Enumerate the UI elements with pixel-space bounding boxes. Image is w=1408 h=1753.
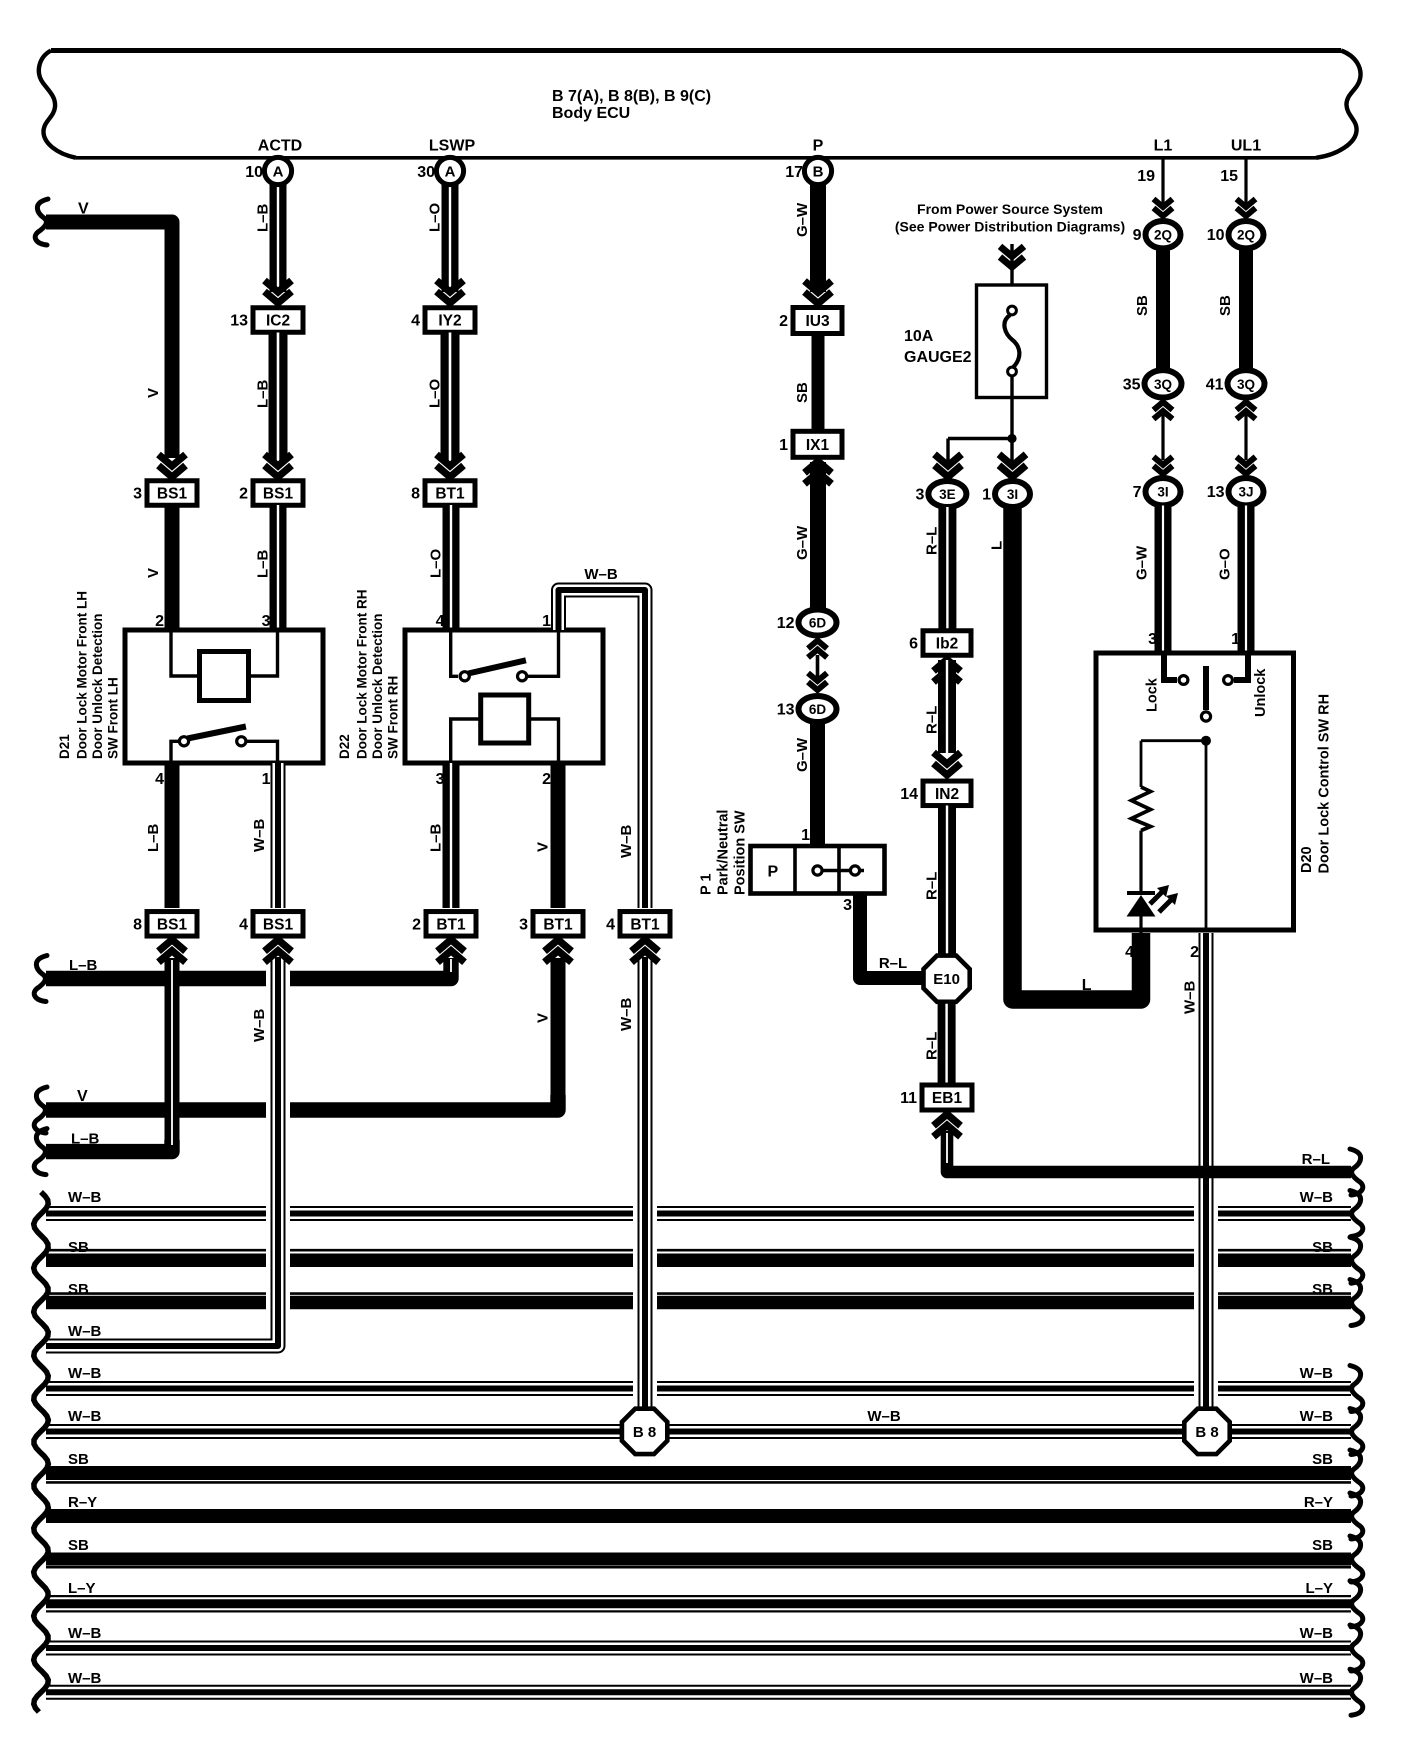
bus label left W–B y1638: [68, 1625, 102, 1642]
bus label left W–B y1202: [68, 1189, 102, 1206]
svg-text:W–B: W–B: [1182, 981, 1199, 1015]
connector IY2 pin 4: [411, 308, 475, 333]
wire G–O from 3J to D20: [1238, 506, 1255, 654]
svg-text:SB: SB: [1312, 1451, 1333, 1468]
wire R-L from E10 to EB1: [938, 1004, 956, 1085]
door lock control switch D20 box: [1096, 653, 1294, 930]
connector IX1 pin 1: [779, 431, 842, 457]
svg-text:From Power Source System: From Power Source System: [917, 201, 1103, 217]
label L-O seg1: [427, 202, 444, 232]
svg-text:Door Unlock Detection: Door Unlock Detection: [90, 613, 105, 759]
svg-text:30: 30: [417, 164, 435, 181]
wire SB bus line 7: [46, 1473, 1351, 1482]
break and label L-B lower 1: [34, 956, 97, 1002]
label R-L seg3: [924, 872, 941, 900]
svg-text:G–O: G–O: [1217, 548, 1234, 580]
wire W-B from BT1 pin 4 to junction B 8 left: [633, 957, 657, 1412]
wire G-W from ECU P to IU3: [810, 184, 826, 292]
bus right break line12: [1350, 1669, 1363, 1715]
D21 switch lever: [188, 727, 246, 739]
wire stub below BS1 pin 8: [165, 958, 180, 1150]
label L-B below D21 pin4: [145, 823, 162, 852]
bus label left L–Y y1593: [68, 1580, 96, 1597]
connector BS1 pin 8 lower: [133, 912, 197, 937]
connector 3Q pin 41: [1206, 370, 1265, 397]
bus label right W–B y1421: [1300, 1408, 1334, 1425]
connector 3Q pin 35: [1123, 370, 1182, 397]
bus label left W–B y1683: [68, 1670, 102, 1687]
arrow into BT1 pin 8: [437, 455, 464, 478]
Body ECU box right break: [1316, 51, 1361, 158]
svg-text:3: 3: [915, 487, 924, 504]
bus label right W–B y1378: [1300, 1365, 1334, 1382]
label L horizontal: [1082, 977, 1092, 994]
wire branch to 3E: [948, 439, 1012, 463]
label D20 name: [1299, 694, 1333, 874]
svg-text:1: 1: [779, 437, 788, 454]
label R-L seg2: [924, 706, 941, 734]
svg-text:11: 11: [900, 1090, 917, 1107]
label L vertical: [989, 541, 1006, 550]
svg-text:UL1: UL1: [1231, 138, 1261, 155]
svg-text:13: 13: [1207, 484, 1225, 501]
label W-B below D21 pin1: [251, 819, 268, 853]
svg-text:Body ECU: Body ECU: [552, 105, 630, 122]
wire between 3Q and 3J: [1244, 414, 1247, 460]
svg-text:L–B: L–B: [255, 203, 272, 232]
svg-text:Door Lock Motor Front LH: Door Lock Motor Front LH: [75, 591, 90, 759]
wire branch to 3I: [1010, 439, 1013, 463]
label L-O seg2: [427, 378, 444, 408]
svg-text:LSWP: LSWP: [429, 138, 476, 155]
wire G-W from IX1 to 6D: [810, 462, 826, 610]
svg-text:SW Front LH: SW Front LH: [106, 677, 121, 759]
bus right break line7: [1350, 1450, 1363, 1496]
bus right break line8: [1350, 1493, 1363, 1539]
Body ECU box left break: [39, 51, 76, 158]
bus label mid W-B line6: [867, 1408, 901, 1425]
svg-text:Door Unlock Detection: Door Unlock Detection: [370, 613, 385, 759]
svg-text:W–B: W–B: [1300, 1625, 1334, 1642]
connector BT1 pin 3 lower: [519, 912, 583, 937]
break and label V lower: [34, 1087, 88, 1133]
arrow into BS1 pin 8 lower: [159, 940, 186, 963]
svg-text:GAUGE2: GAUGE2: [904, 349, 972, 366]
svg-text:W–B: W–B: [68, 1189, 102, 1206]
svg-text:SB: SB: [1312, 1239, 1333, 1256]
label W-B on x278 lower: [251, 1009, 268, 1043]
wire pin 19 from ECU: [1161, 159, 1164, 207]
wire L-B lower feed 1: [46, 962, 451, 979]
pin number 19: [1137, 168, 1155, 185]
connector 6D pin 12: [777, 610, 837, 636]
bus label right W–B y1638: [1300, 1625, 1334, 1642]
wire SB bus line 3: [46, 1294, 1351, 1303]
arrow into BT1 pin 4 lower: [632, 940, 659, 963]
svg-text:L–Y: L–Y: [1305, 1580, 1333, 1597]
wire L-B from D21 pin 4: [165, 763, 180, 908]
svg-text:SB: SB: [68, 1537, 89, 1554]
junction dot below fuse: [1007, 434, 1016, 443]
door lock motor D21 box: [125, 630, 323, 763]
svg-text:W–B: W–B: [68, 1670, 102, 1687]
wire W-B bus line 12: [46, 1685, 1351, 1700]
wire from fuse to junction: [1010, 376, 1013, 439]
svg-text:2: 2: [239, 486, 248, 503]
svg-text:19: 19: [1137, 168, 1155, 185]
label W-B top of up-and-over: [584, 566, 618, 583]
wire R-L from P/N SW pin 3 to E10: [860, 894, 923, 979]
wire R-Y bus line 8: [46, 1509, 1351, 1523]
svg-text:V: V: [77, 1088, 88, 1105]
bus right break line3: [1350, 1280, 1363, 1326]
bus label right W–B y1202: [1300, 1189, 1334, 1206]
svg-text:W–B: W–B: [1300, 1189, 1334, 1206]
wire L-Y bus line 10: [46, 1595, 1351, 1613]
D21 motor leads: [171, 630, 278, 676]
svg-text:W–B: W–B: [584, 566, 618, 583]
svg-text:6: 6: [909, 636, 918, 653]
label SB x1163: [1134, 295, 1151, 316]
break and label V top-left: [35, 199, 89, 245]
wire W-B bus line 5: [46, 1381, 1351, 1396]
svg-text:(See Power Distribution Diagra: (See Power Distribution Diagrams): [895, 219, 1125, 235]
arrow down into IN2: [934, 753, 961, 776]
wire L-O from ECU LSWP to IY2: [442, 184, 459, 292]
svg-text:3: 3: [133, 486, 142, 503]
wire between 3Q and 3I: [1161, 414, 1164, 460]
bus label left W–B y1336: [68, 1323, 102, 1340]
svg-text:SB: SB: [68, 1281, 89, 1298]
bus label left SB y1464: [68, 1451, 89, 1468]
wire W-B from D20 pin 2 to junction B 8 right: [1194, 933, 1218, 1408]
D20 bottom pin numbers: [1125, 944, 1199, 961]
svg-text:4: 4: [411, 313, 420, 330]
LED light arrows: [1150, 885, 1178, 912]
svg-text:P: P: [813, 138, 824, 155]
arrow into 2Q x1246: [1237, 199, 1256, 216]
svg-text:12: 12: [777, 615, 795, 632]
svg-text:3: 3: [1148, 631, 1157, 648]
pin number 15: [1220, 168, 1238, 185]
wire L-B from ECU ACTD to IC2: [270, 184, 287, 292]
D20 top pin numbers: [1148, 631, 1240, 648]
svg-text:IU3: IU3: [805, 313, 830, 330]
label V on x558 stub: [535, 1013, 552, 1023]
wire L-B from D22 pin 3: [443, 763, 460, 908]
bus right break line11: [1350, 1625, 1363, 1671]
label 10A GAUGE2: [904, 328, 972, 366]
svg-text:BS1: BS1: [157, 916, 188, 933]
wire V lower feed: [46, 1095, 558, 1110]
label D22 name: [337, 590, 401, 759]
svg-text:3: 3: [519, 916, 528, 933]
svg-text:L: L: [1082, 977, 1092, 994]
label G-W seg3: [794, 737, 811, 772]
arrow into BT1 pin 3 lower: [545, 940, 572, 963]
svg-text:BT1: BT1: [543, 916, 573, 933]
arrow into 3E: [935, 454, 962, 477]
svg-text:R–L: R–L: [924, 706, 941, 734]
connector Ib2 pin 6: [909, 631, 971, 656]
connector IC2 pin 13: [230, 308, 303, 333]
svg-text:2: 2: [1190, 944, 1199, 961]
bus right break line1: [1350, 1191, 1363, 1237]
junction connector E10: [924, 956, 970, 1002]
svg-text:IY2: IY2: [438, 313, 461, 330]
svg-text:W–B: W–B: [618, 998, 635, 1032]
D22 motor symbol: [481, 695, 529, 743]
pin name P: [813, 138, 824, 155]
svg-text:E10: E10: [933, 971, 960, 988]
break and label R-L right: [1302, 1149, 1363, 1195]
connector BS1 pin 4 lower: [239, 912, 303, 937]
D22 pin numbers: [436, 613, 552, 788]
svg-text:14: 14: [900, 786, 918, 803]
wire W-B from BS1 pin 4 to bus line 4: [46, 957, 278, 1346]
label V below D22 pin2: [535, 842, 552, 852]
svg-text:3I: 3I: [1157, 485, 1168, 500]
wire into fuse: [1010, 244, 1013, 306]
wire resistor to LED: [1139, 831, 1142, 892]
svg-text:1: 1: [801, 827, 810, 844]
svg-text:Park/Neutral: Park/Neutral: [716, 810, 732, 895]
wire SB x1246: [1239, 248, 1253, 371]
D22 motor leads: [451, 719, 559, 763]
svg-text:R–Y: R–Y: [68, 1494, 97, 1511]
svg-text:L–B: L–B: [428, 823, 445, 852]
arrow into IY2: [437, 281, 464, 304]
svg-text:2: 2: [412, 916, 421, 933]
svg-text:4: 4: [155, 771, 164, 788]
svg-text:V: V: [78, 201, 89, 218]
D20 unlock contact: [1224, 653, 1248, 684]
svg-text:4: 4: [436, 613, 445, 630]
bus label right SB y1464: [1312, 1451, 1333, 1468]
D20 switch pole: [1201, 666, 1210, 721]
svg-text:SB: SB: [1312, 1281, 1333, 1298]
svg-text:35: 35: [1123, 376, 1141, 393]
arrow down into 6D pin 13: [808, 673, 827, 690]
wire W-B from D21 pin 1: [271, 763, 286, 908]
wire pin 15 from ECU: [1244, 159, 1247, 207]
arrow into BS1 pin 4 lower: [265, 940, 292, 963]
svg-text:W–B: W–B: [68, 1365, 102, 1382]
svg-text:W–B: W–B: [1300, 1408, 1334, 1425]
svg-text:Ib2: Ib2: [936, 636, 958, 653]
svg-text:SB: SB: [68, 1239, 89, 1256]
svg-text:4: 4: [239, 916, 248, 933]
svg-text:3Q: 3Q: [1237, 377, 1255, 392]
bus label right SB y1252: [1312, 1239, 1333, 1256]
svg-text:1: 1: [982, 487, 991, 504]
svg-text:R–L: R–L: [879, 955, 907, 972]
wire G-W from 6D to P/N switch pin 1: [810, 722, 825, 846]
svg-text:R–Y: R–Y: [1304, 1494, 1333, 1511]
svg-text:2Q: 2Q: [1237, 228, 1255, 243]
arrow up into Ib2: [934, 660, 961, 683]
wire L-B from IC2 to BS1 pin 2: [269, 333, 288, 463]
svg-text:W–B: W–B: [68, 1625, 102, 1642]
svg-text:3Q: 3Q: [1154, 377, 1172, 392]
label R-L P/N to E10: [879, 955, 907, 972]
door lock motor D22 box: [405, 630, 603, 763]
svg-text:SB: SB: [1134, 295, 1151, 316]
bus right break line9: [1350, 1536, 1363, 1582]
arrow into BS1 pin 2: [265, 455, 292, 478]
svg-text:3: 3: [262, 613, 271, 630]
wire W-B bus line 6: [46, 1424, 1351, 1439]
svg-text:Door Lock Control SW RH: Door Lock Control SW RH: [1317, 694, 1333, 874]
connector circle A pin 30 LSWP: [417, 157, 463, 184]
D21 switch contacts: [179, 737, 246, 746]
bus label left W–B y1378: [68, 1365, 102, 1382]
label L-B seg3: [255, 549, 272, 578]
svg-text:13: 13: [230, 313, 248, 330]
bus label left SB y1294: [68, 1281, 89, 1298]
wire R-L from EB1 to right break: [947, 1131, 1351, 1172]
label L-B seg1: [255, 203, 272, 232]
bus label left W–B y1421: [68, 1408, 102, 1425]
label R-L seg1: [924, 527, 941, 555]
D21 motor symbol: [200, 652, 249, 701]
svg-text:P 1: P 1: [699, 873, 715, 895]
label G-W seg2: [794, 525, 811, 560]
svg-text:9: 9: [1133, 227, 1142, 244]
wire G–W from 3I to D20: [1155, 506, 1172, 654]
connector 3J pin 13: [1207, 478, 1264, 505]
D21 switch leads: [171, 741, 278, 763]
label L-B below D22 pin3: [428, 823, 445, 852]
svg-text:BS1: BS1: [263, 486, 294, 503]
svg-text:G–W: G–W: [794, 525, 811, 560]
P/N SW pin 1 number: [801, 827, 810, 844]
label R-L seg4: [924, 1032, 941, 1060]
connector BS1 pin 3: [133, 481, 197, 506]
Body ECU title: [552, 88, 711, 122]
connector 3I pin 7: [1133, 478, 1181, 505]
pin name LSWP: [429, 138, 476, 155]
svg-text:B: B: [813, 164, 824, 181]
svg-text:Position SW: Position SW: [733, 810, 749, 895]
svg-text:IC2: IC2: [266, 313, 290, 330]
svg-text:D20: D20: [1299, 846, 1315, 873]
svg-text:2Q: 2Q: [1154, 228, 1172, 243]
fuse 10A GAUGE2: [977, 285, 1047, 398]
wire SB bus line 9: [46, 1559, 1351, 1567]
arrow from power source: [1000, 246, 1024, 267]
svg-text:B 8: B 8: [1195, 1424, 1218, 1441]
wire R-L from 3E to Ib2: [938, 507, 956, 631]
bus label right L–Y y1593: [1305, 1580, 1333, 1597]
label G-W seg1: [794, 202, 811, 237]
Body ECU box top edge: [51, 48, 1341, 53]
park/neutral position switch P1 box: [751, 846, 885, 894]
wire W-B bus line 1: [46, 1206, 1351, 1221]
connector IU3 pin 2: [779, 308, 842, 334]
svg-text:G–W: G–W: [794, 202, 811, 237]
svg-text:SB: SB: [1217, 295, 1234, 316]
svg-text:L–B: L–B: [255, 379, 272, 408]
svg-text:3I: 3I: [1007, 487, 1018, 502]
pin name ACTD: [258, 138, 302, 155]
wire SB from IU3 to IX1: [812, 334, 825, 432]
svg-text:6D: 6D: [809, 616, 827, 631]
arrow up into 3Q x1163: [1154, 402, 1173, 419]
svg-text:SB: SB: [68, 1451, 89, 1468]
svg-text:Door Lock Motor Front RH: Door Lock Motor Front RH: [355, 590, 370, 759]
label V seg3: [145, 568, 162, 578]
svg-text:8: 8: [133, 916, 142, 933]
svg-text:4: 4: [1125, 944, 1134, 961]
wire L from 3I to D20 pin 4: [1013, 505, 1142, 1000]
svg-text:W–B: W–B: [251, 819, 268, 853]
label P1 Park/Neutral Position SW: [699, 810, 749, 895]
label G–O: [1217, 548, 1234, 580]
label P cell: [767, 864, 778, 881]
label W-B on x645 upper: [618, 825, 635, 859]
svg-text:10: 10: [1207, 227, 1225, 244]
svg-text:SB: SB: [794, 382, 811, 403]
svg-text:W–B: W–B: [68, 1323, 102, 1340]
connector 6D pin 13: [777, 696, 837, 722]
svg-text:IN2: IN2: [935, 786, 959, 803]
svg-text:Lock: Lock: [1145, 677, 1161, 712]
svg-text:1: 1: [1231, 631, 1240, 648]
svg-text:W–B: W–B: [1300, 1365, 1334, 1382]
svg-text:BT1: BT1: [436, 916, 466, 933]
svg-text:L–B: L–B: [145, 823, 162, 852]
D20 junction dot: [1201, 736, 1211, 746]
svg-text:W–B: W–B: [68, 1408, 102, 1425]
svg-text:D22: D22: [337, 734, 352, 759]
label G–W: [1134, 545, 1151, 580]
svg-text:L–O: L–O: [428, 548, 445, 578]
svg-text:A: A: [273, 164, 284, 181]
connector circle A pin 10 ACTD: [245, 157, 291, 184]
label L-B seg2: [255, 379, 272, 408]
connector 3I pin 1: [982, 481, 1030, 507]
svg-text:10A: 10A: [904, 328, 934, 345]
Body ECU box bottom edge: [76, 156, 1316, 160]
label Lock: [1145, 677, 1161, 712]
label L-O seg3: [428, 548, 445, 578]
P/N SW pin 3 number: [843, 897, 852, 914]
label W-B below D20 pin 2: [1182, 981, 1199, 1015]
junction connector B 8 left: [622, 1409, 667, 1454]
wire W-B bus line 11: [46, 1641, 1351, 1656]
svg-text:G–W: G–W: [1134, 545, 1151, 580]
svg-text:3: 3: [843, 897, 852, 914]
svg-text:P: P: [767, 864, 778, 881]
wire L-O from IY2 to BT1 pin 8: [441, 333, 460, 463]
D21 pin numbers: [155, 613, 271, 788]
D20 lock contact: [1164, 653, 1188, 684]
arrow out of IX1 up: [805, 461, 832, 484]
wire L-B from BS1 to D21 pin 3: [270, 505, 287, 630]
arrow into IC2: [265, 281, 292, 304]
wire R-L from Ib2 to IN2: [938, 660, 956, 753]
arrow into BT1 pin 2 lower: [438, 940, 465, 963]
connector EB1 pin 11: [900, 1085, 972, 1110]
arrow into 2Q x1163: [1154, 199, 1173, 216]
svg-text:BT1: BT1: [630, 916, 660, 933]
svg-text:BS1: BS1: [157, 486, 188, 503]
svg-text:IX1: IX1: [806, 437, 830, 454]
connector BT1 pin 2 lower: [412, 912, 476, 937]
svg-text:R–L: R–L: [1302, 1151, 1330, 1168]
svg-text:41: 41: [1206, 376, 1224, 393]
